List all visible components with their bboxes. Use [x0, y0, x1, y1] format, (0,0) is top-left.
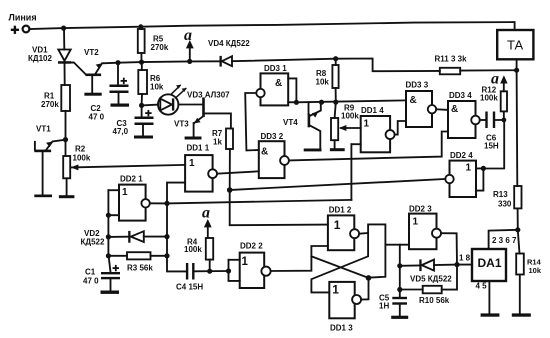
svg-text:DD2 4: DD2 4: [450, 151, 473, 160]
svg-text:DD3 2: DD3 2: [261, 132, 284, 141]
svg-text:DD2 2: DD2 2: [240, 242, 263, 251]
svg-text:47 0: 47 0: [89, 113, 105, 122]
svg-text:1Н: 1Н: [379, 302, 389, 311]
svg-text:15Н: 15Н: [484, 142, 499, 151]
svg-text:VT4: VT4: [283, 118, 298, 127]
svg-text:1: 1: [242, 256, 249, 268]
svg-text:2 3 6 7: 2 3 6 7: [492, 236, 517, 245]
svg-text:R13: R13: [493, 190, 508, 199]
svg-text:1 8: 1 8: [459, 254, 471, 263]
svg-text:DD1 2: DD1 2: [329, 206, 352, 215]
svg-text:10k: 10k: [150, 83, 164, 92]
svg-text:a: a: [202, 205, 210, 222]
svg-text:1: 1: [189, 158, 195, 169]
svg-text:330: 330: [498, 200, 512, 209]
svg-text:DD2 3: DD2 3: [409, 205, 432, 214]
svg-text:100k: 100k: [341, 112, 359, 121]
svg-text:C4 15H: C4 15H: [176, 283, 203, 292]
svg-text:DD1 4: DD1 4: [361, 106, 384, 115]
svg-text:DD1 3: DD1 3: [330, 324, 353, 333]
svg-text:1: 1: [332, 283, 339, 297]
svg-text:DD3 1: DD3 1: [264, 64, 287, 73]
svg-text:C1: C1: [85, 268, 96, 277]
svg-text:100k: 100k: [480, 94, 498, 103]
svg-text:Линия: Линия: [9, 13, 37, 23]
svg-text:270k: 270k: [41, 100, 59, 109]
svg-text:R11 3 3k: R11 3 3k: [435, 55, 468, 64]
svg-text:47 0: 47 0: [83, 277, 99, 286]
svg-text:10k: 10k: [316, 78, 330, 87]
svg-text:100k: 100k: [73, 154, 91, 163]
svg-text:1: 1: [364, 119, 370, 130]
svg-text:DD2 1: DD2 1: [120, 175, 143, 184]
svg-text:1: 1: [334, 218, 341, 232]
svg-text:&: &: [410, 95, 417, 106]
svg-text:VD4 КД522: VD4 КД522: [208, 39, 250, 48]
svg-text:КД102: КД102: [28, 54, 52, 63]
svg-text:R2: R2: [75, 145, 86, 154]
svg-text:DA1: DA1: [478, 256, 502, 270]
svg-text:DD3 4: DD3 4: [449, 91, 472, 100]
svg-text:R10 56k: R10 56k: [419, 296, 450, 305]
svg-text:&: &: [275, 78, 282, 89]
svg-text:ТА: ТА: [507, 38, 524, 53]
svg-text:1: 1: [413, 217, 419, 228]
svg-text:DD1 1: DD1 1: [187, 144, 210, 153]
svg-text:VD3 АЛ307: VD3 АЛ307: [187, 91, 230, 100]
svg-text:VT2: VT2: [84, 48, 99, 57]
svg-text:4 5: 4 5: [476, 282, 488, 291]
svg-text:VT3: VT3: [174, 120, 189, 129]
svg-text:47,0: 47,0: [113, 127, 129, 136]
svg-text:270k: 270k: [151, 43, 169, 52]
svg-text:&: &: [451, 104, 458, 115]
svg-text:VT1: VT1: [36, 125, 51, 134]
svg-text:10k: 10k: [529, 266, 542, 275]
svg-text:КД522: КД522: [81, 238, 105, 247]
svg-text:&: &: [261, 147, 268, 158]
svg-text:DD3 3: DD3 3: [406, 81, 429, 90]
svg-text:R3 56k: R3 56k: [127, 264, 153, 273]
svg-text:100k: 100k: [184, 245, 202, 254]
svg-text:1: 1: [122, 187, 128, 198]
svg-text:1: 1: [466, 163, 472, 174]
svg-text:VD5 КД522: VD5 КД522: [410, 275, 452, 284]
svg-text:a: a: [184, 27, 192, 44]
svg-text:1k: 1k: [213, 138, 222, 147]
svg-text:a: a: [491, 71, 499, 88]
